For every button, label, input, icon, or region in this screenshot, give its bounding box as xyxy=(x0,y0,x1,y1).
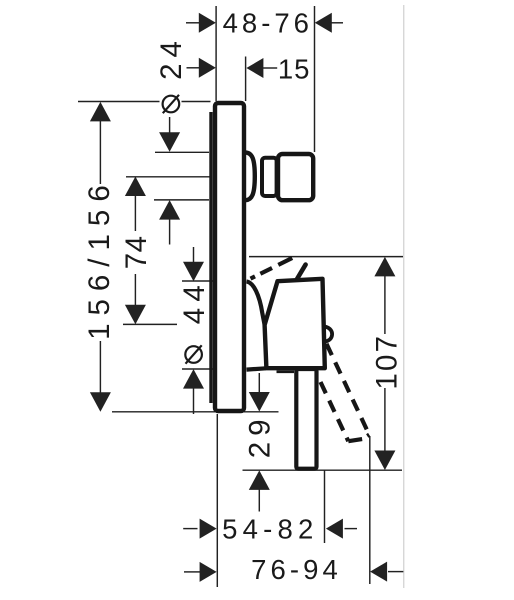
svg-text:15: 15 xyxy=(278,54,311,85)
svg-text:54-82: 54-82 xyxy=(222,513,318,544)
svg-text:156/156: 156/156 xyxy=(83,177,116,340)
svg-text:24: 24 xyxy=(155,35,188,80)
svg-text:107: 107 xyxy=(370,334,403,390)
svg-text:29: 29 xyxy=(243,413,276,458)
svg-text:74: 74 xyxy=(120,235,153,269)
svg-text:48-76: 48-76 xyxy=(223,7,313,38)
svg-text:76-94: 76-94 xyxy=(251,554,342,585)
svg-text:44: 44 xyxy=(178,279,211,324)
